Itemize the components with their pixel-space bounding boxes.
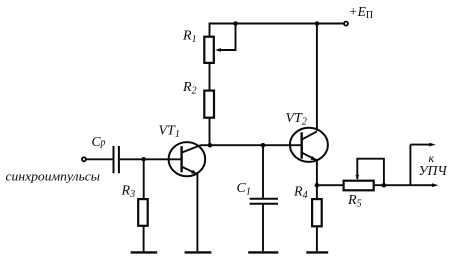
svg-text:Cр: Cр xyxy=(92,134,106,149)
wire R3 to ground xyxy=(143,225,145,251)
wire output bottom arrow xyxy=(410,184,432,186)
resistor R3 xyxy=(138,199,148,226)
wire R1 to R2 xyxy=(209,62,211,92)
terminal +Eп (open circle) xyxy=(344,22,348,26)
wire R4 to ground xyxy=(316,226,318,252)
svg-text:R3: R3 xyxy=(121,184,136,201)
wire top supply rail xyxy=(210,24,344,38)
svg-text:R5: R5 xyxy=(347,193,362,210)
node R2-collector junction xyxy=(208,143,213,148)
node emitter junction xyxy=(315,183,320,188)
wire output top arrow xyxy=(410,144,430,146)
node rail-wiper junction xyxy=(233,21,238,26)
wire input to Cp xyxy=(86,158,113,160)
transistor VT2 xyxy=(290,128,328,162)
svg-text:VT2: VT2 xyxy=(286,111,307,128)
svg-text:УПЧ: УПЧ xyxy=(419,163,448,178)
node base junction xyxy=(141,157,146,162)
resistor R1 (trimmer body) xyxy=(204,37,214,63)
wire VT2 collector to rail xyxy=(316,24,318,131)
wire VT1 emitter to ground xyxy=(196,174,198,251)
wire base node to R3 xyxy=(143,159,145,199)
wire R5 wiper loop xyxy=(357,159,384,186)
wire R1 wiper tie to rail xyxy=(218,24,235,51)
wire R5 right to output xyxy=(374,184,410,186)
node R5-wiper junction xyxy=(382,183,387,188)
ground under R4 xyxy=(306,251,328,253)
wire collector rail VT1 to VT2 xyxy=(201,144,302,146)
resistor R4 xyxy=(312,199,322,226)
node C1 tap junction xyxy=(261,143,266,148)
wire emitter node to R5 xyxy=(317,184,343,186)
wire VT2 emitter down xyxy=(316,160,318,199)
svg-text:синхроимпульсы: синхроимпульсы xyxy=(6,169,101,184)
svg-text:+EП: +EП xyxy=(349,4,374,21)
wire Cp to base node xyxy=(120,158,181,160)
ground under R3 xyxy=(131,251,158,253)
wire R2 to collector node xyxy=(209,117,211,145)
wiper arrowhead into R1 xyxy=(215,48,221,52)
wire C1 to ground xyxy=(262,204,264,251)
svg-text:R1: R1 xyxy=(182,29,197,46)
terminal input (open circle) xyxy=(82,157,86,161)
node rail-collector junction xyxy=(315,21,320,26)
svg-text:R4: R4 xyxy=(293,185,308,202)
capacitor C1 xyxy=(250,199,278,204)
transistor VT1 xyxy=(169,142,206,176)
wire C1 tap down xyxy=(262,145,264,198)
wiper arrowhead into R5 xyxy=(356,175,360,180)
wire output branch vertical xyxy=(409,145,411,186)
capacitor Cp xyxy=(114,146,119,173)
resistor R2 xyxy=(204,91,214,118)
svg-text:R2: R2 xyxy=(182,80,197,97)
resistor R5 (trimmer body) xyxy=(344,181,374,191)
svg-text:VT1: VT1 xyxy=(159,124,180,141)
ground under C1 xyxy=(248,251,278,253)
svg-text:C1: C1 xyxy=(237,181,251,198)
ground under VT1 xyxy=(185,251,212,253)
